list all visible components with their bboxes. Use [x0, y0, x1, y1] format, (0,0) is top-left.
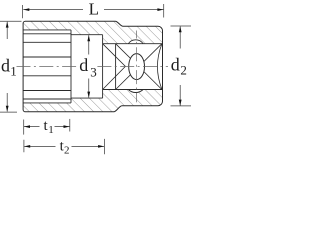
svg-text:3: 3 — [90, 64, 97, 79]
svg-text:d: d — [1, 55, 10, 75]
svg-text:1: 1 — [10, 63, 17, 78]
svg-text:2: 2 — [64, 145, 70, 157]
svg-text:d: d — [171, 55, 180, 75]
svg-text:L: L — [89, 0, 99, 18]
svg-text:d: d — [79, 55, 88, 75]
svg-text:2: 2 — [180, 63, 187, 78]
svg-text:1: 1 — [48, 124, 54, 136]
